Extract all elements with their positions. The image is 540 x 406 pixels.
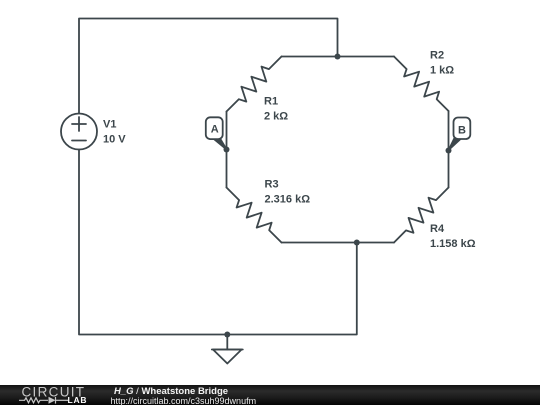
svg-text:V1: V1 (103, 119, 116, 131)
wire bridge bottom horizontal (282, 242, 395, 244)
node A junction (224, 147, 230, 153)
svg-text:2.316 kΩ: 2.316 kΩ (265, 194, 311, 206)
svg-text:10 V: 10 V (103, 134, 126, 146)
svg-text:1.158 kΩ: 1.158 kΩ (430, 238, 476, 250)
node A flag (206, 117, 227, 150)
resistor R3 (227, 188, 282, 243)
wire bottom from bridge to V1 (79, 150, 357, 335)
svg-text:B: B (458, 125, 466, 137)
svg-text:LAB: LAB (68, 395, 88, 405)
wire top from V1 to bridge (79, 19, 338, 114)
wire bridge top horizontal (282, 56, 395, 58)
node B flag (448, 118, 470, 151)
node junction ground (224, 332, 230, 338)
CircuitLab logo (15, 385, 125, 405)
node B junction (446, 148, 452, 154)
node junction bottom (354, 240, 360, 246)
svg-text:A: A (211, 124, 219, 136)
svg-text:R1: R1 (264, 96, 278, 108)
resistor R1 (227, 57, 282, 112)
svg-text:R3: R3 (265, 179, 279, 191)
wire bridge left vertical (node A) (226, 112, 228, 188)
voltage source V1 (61, 114, 97, 150)
ground (226, 335, 228, 350)
resistor R4 (394, 188, 449, 243)
svg-text:2 kΩ: 2 kΩ (264, 111, 288, 123)
svg-text:R4: R4 (430, 223, 445, 235)
svg-text:1 kΩ: 1 kΩ (430, 65, 454, 77)
resistor R2 (394, 57, 449, 112)
node junction top (335, 54, 341, 60)
wire bridge right vertical (node B) (448, 111, 450, 188)
svg-text:R2: R2 (430, 50, 444, 62)
